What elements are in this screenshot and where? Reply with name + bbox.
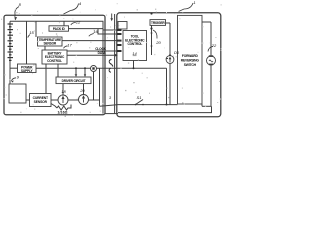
- svg-text:3: 3: [109, 95, 112, 100]
- svg-text:CONTROL: CONTROL: [127, 42, 142, 46]
- svg-text:DRIVER CIRCUIT: DRIVER CIRCUIT: [62, 79, 86, 83]
- svg-text:TRIGGER: TRIGGER: [151, 21, 165, 25]
- svg-text:S1: S1: [137, 95, 142, 100]
- svg-text:15: 15: [29, 30, 34, 35]
- svg-text:20: 20: [155, 40, 161, 45]
- svg-text:18: 18: [61, 89, 66, 94]
- svg-text:SENSOR: SENSOR: [34, 100, 48, 104]
- svg-text:SENSOR: SENSOR: [44, 42, 57, 46]
- svg-text:9: 9: [17, 75, 20, 80]
- svg-text:1/16Ω: 1/16Ω: [57, 110, 67, 114]
- svg-text:REVERSING: REVERSING: [181, 58, 200, 62]
- svg-text:14: 14: [132, 51, 137, 56]
- svg-text:20: 20: [79, 88, 85, 93]
- svg-text:SWITCH: SWITCH: [184, 63, 197, 67]
- svg-text:SUPPLY: SUPPLY: [21, 69, 34, 73]
- svg-text:12: 12: [76, 20, 81, 25]
- svg-text:1: 1: [193, 0, 195, 5]
- svg-text:PACK ID: PACK ID: [53, 27, 66, 31]
- svg-text:D1: D1: [174, 50, 179, 55]
- svg-text:17: 17: [67, 43, 72, 48]
- svg-text:CONTROL: CONTROL: [47, 59, 62, 63]
- svg-text:FORWARD: FORWARD: [182, 54, 199, 58]
- svg-text:4: 4: [79, 1, 82, 6]
- svg-text:8: 8: [19, 2, 22, 7]
- svg-text:DATA: DATA: [98, 51, 107, 55]
- svg-text:22: 22: [211, 43, 217, 48]
